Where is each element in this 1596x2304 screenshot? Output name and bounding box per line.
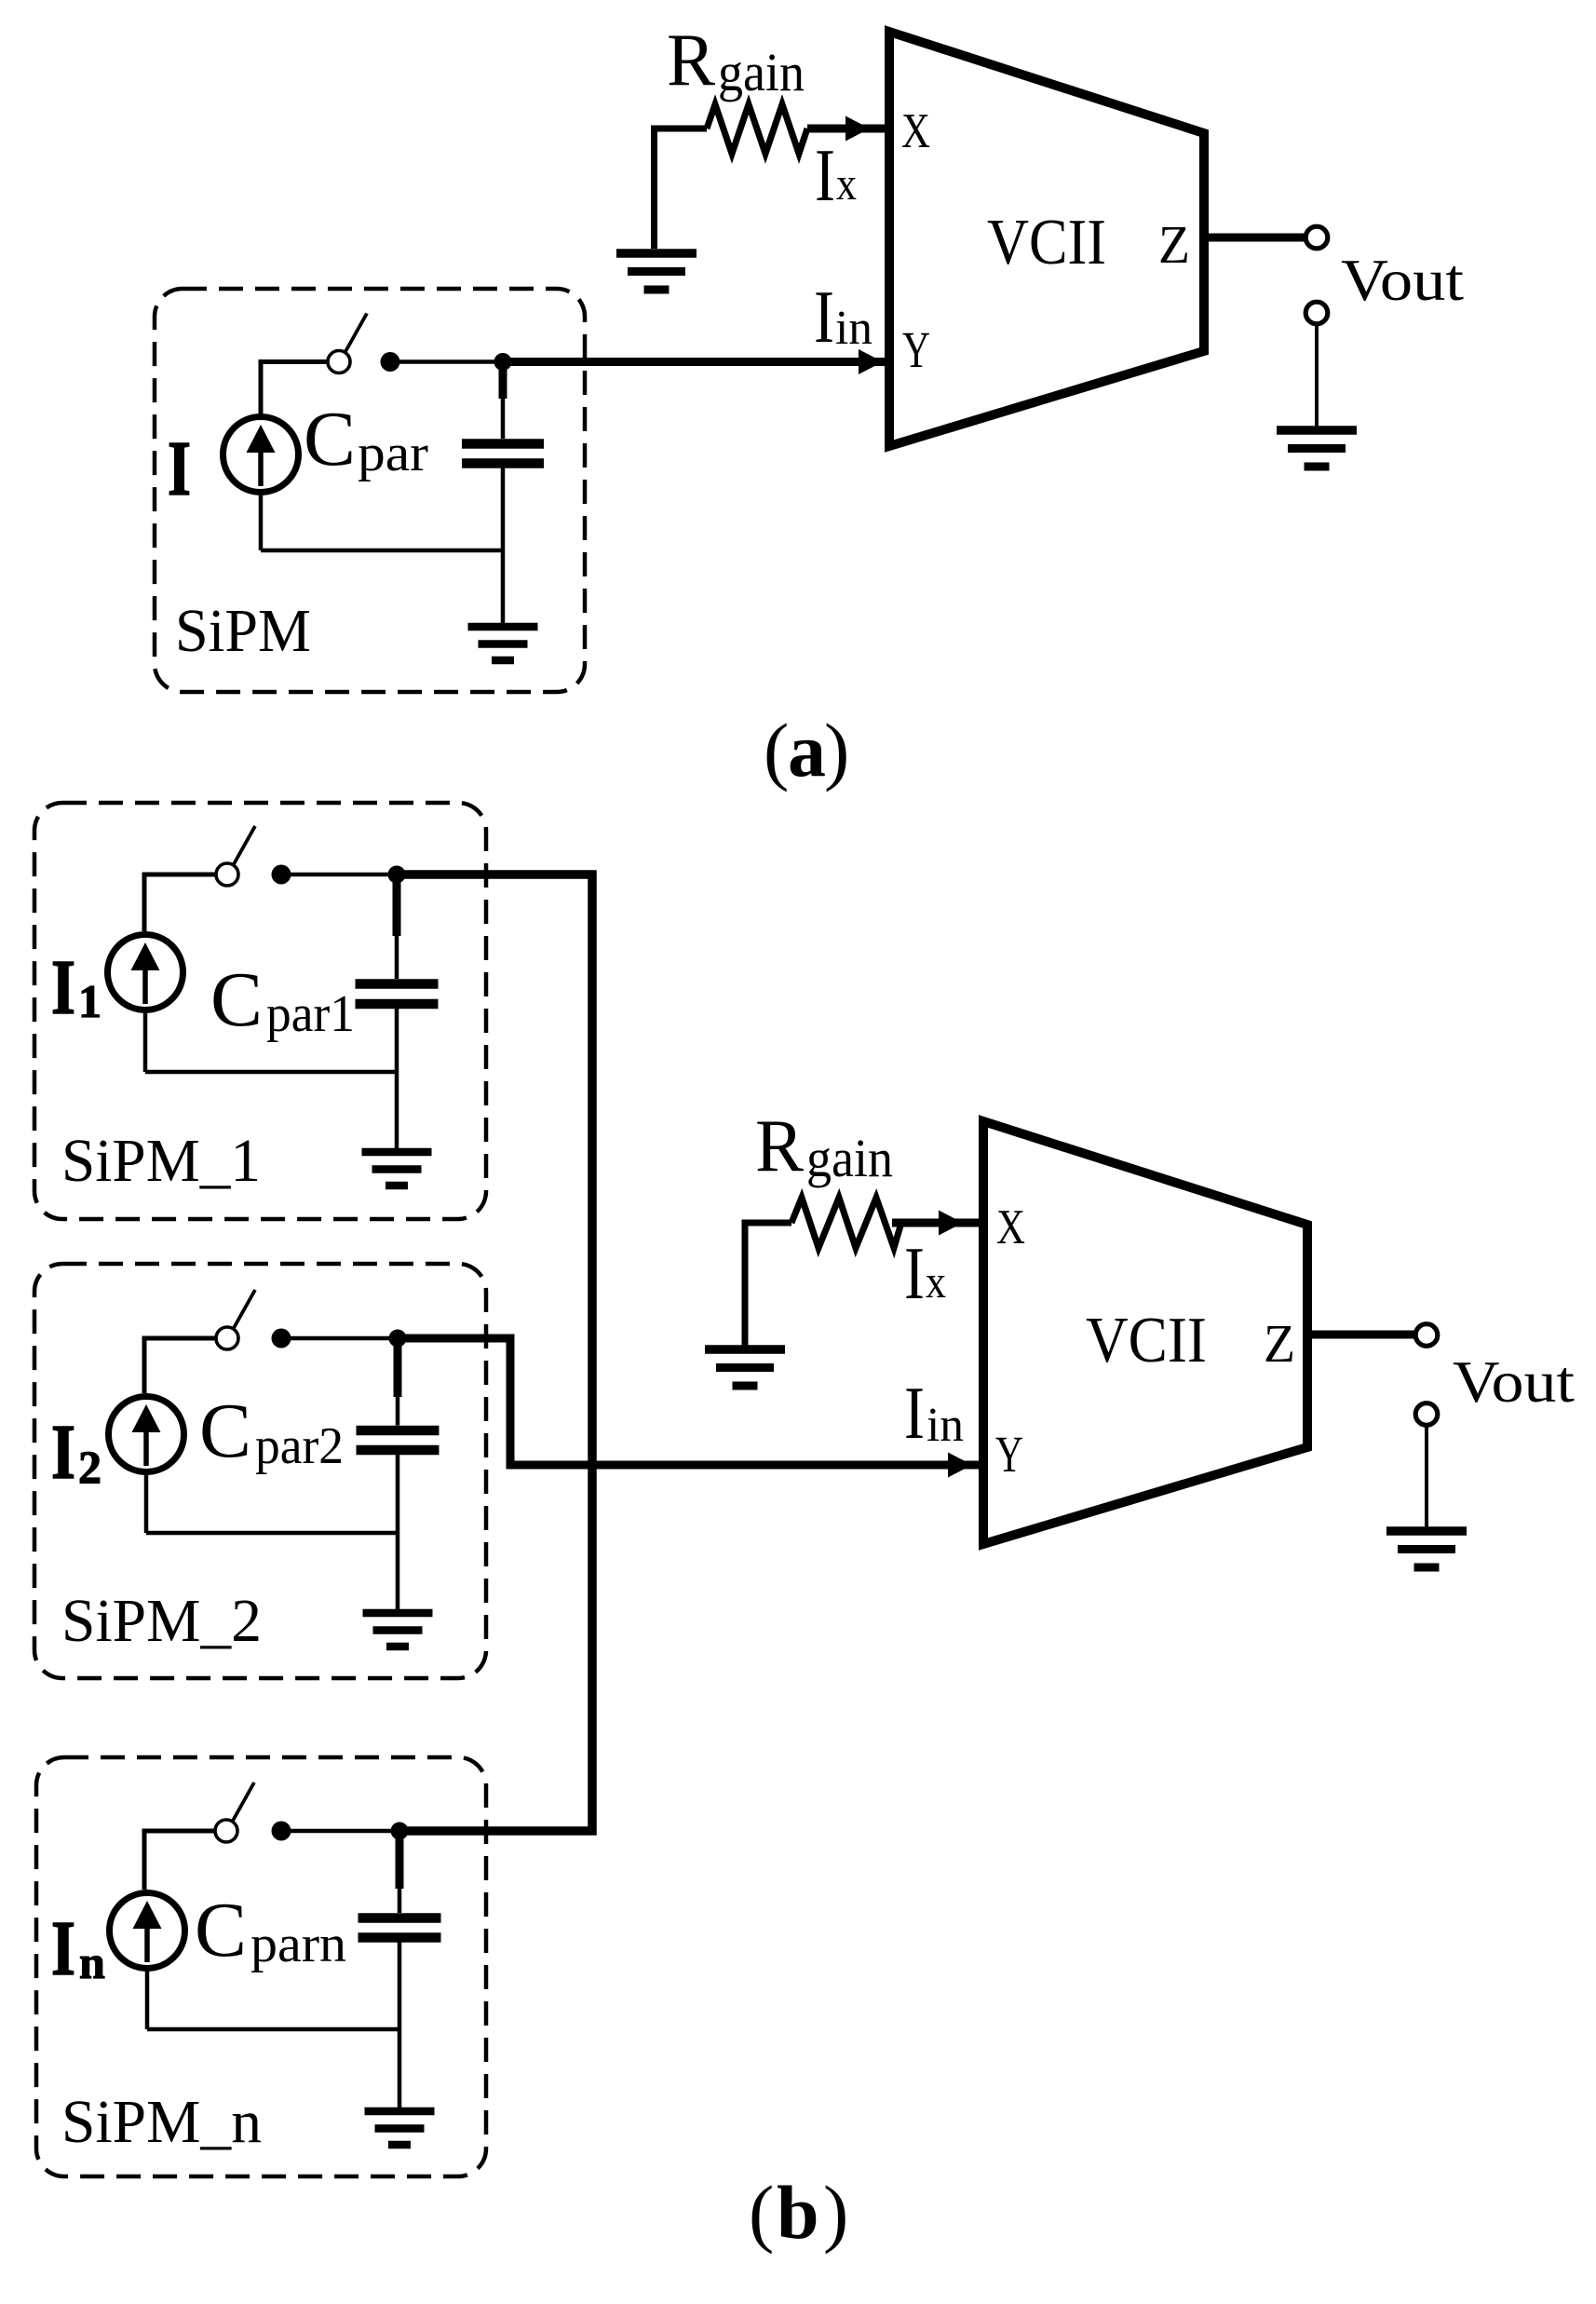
label I2 — [51, 1409, 101, 1496]
svg-text:R: R — [755, 1104, 804, 1187]
wire source-to-switch (b1) — [144, 874, 216, 931]
wire Iin to pin Y (a) with arrow — [503, 349, 886, 374]
resistor Rgain (a) — [707, 104, 807, 154]
svg-text:gain: gain — [806, 1128, 893, 1188]
wire source-to-switch (b3) — [144, 1831, 215, 1890]
capacitor Cpar1 — [356, 878, 439, 1004]
ground G3 (SiPM a) — [468, 627, 538, 660]
op-amp VCII U2 (b) — [983, 1121, 1307, 1544]
label (b) — [749, 2170, 848, 2255]
label Rgain (a) — [667, 18, 805, 102]
wire node-to-junction (b1) — [281, 873, 397, 877]
wire Iin to pin Y (b) with arrow — [507, 1453, 981, 1478]
capacitor Cparn — [358, 1835, 441, 1938]
current source I2 — [109, 1397, 184, 1472]
terminal Vout upper (a) — [1305, 226, 1328, 249]
label In — [51, 1905, 105, 1992]
label Rgain (b) — [755, 1104, 893, 1188]
terminal Vout lower (b) — [1415, 1403, 1438, 1426]
terminal Vout lower (a) — [1305, 302, 1328, 324]
ground G2 (Vout a) — [1277, 430, 1357, 467]
node dot (b3) — [272, 1822, 291, 1841]
node dot (b2) — [272, 1329, 291, 1349]
svg-text:a: a — [788, 708, 826, 793]
svg-text:C: C — [210, 956, 263, 1043]
wire source bottom rail (b3) — [147, 1943, 399, 2112]
ground G7 (SiPM_n) — [365, 2111, 435, 2145]
junction dot (b2) — [389, 1330, 407, 1348]
capacitor Cpar2 — [357, 1342, 440, 1450]
svg-text:par2: par2 — [255, 1417, 344, 1475]
svg-text:I: I — [904, 1373, 925, 1455]
switch S3 (b2) — [216, 1290, 255, 1349]
wire source-to-switch (b2) — [144, 1338, 216, 1393]
svg-text:in: in — [835, 302, 872, 355]
wire SiPM_2 output down to Iin rail — [398, 1338, 510, 1465]
ground G8 (Vout b) — [1386, 1531, 1467, 1567]
svg-text:VCII: VCII — [987, 207, 1106, 278]
svg-text:n: n — [79, 1936, 105, 1988]
svg-text:X: X — [996, 1200, 1025, 1254]
capacitor Cpar (a) — [462, 366, 544, 464]
node dot (switch contact a) — [381, 352, 400, 372]
wire Z output (b) — [1307, 1331, 1415, 1339]
svg-text:par1: par1 — [266, 985, 355, 1043]
svg-text:gain: gain — [718, 42, 805, 102]
svg-text:I: I — [51, 944, 75, 1031]
svg-text:SiPM_n: SiPM_n — [61, 2088, 262, 2156]
wire Z output (a) — [1204, 234, 1305, 242]
label I1 — [51, 944, 101, 1031]
switch S1 (a) — [328, 314, 367, 373]
label Iin (b) — [904, 1373, 964, 1455]
wire source-to-switch (a) — [261, 362, 328, 417]
current source I1 — [108, 935, 183, 1010]
wire SiPM_1 output to summing bus — [397, 874, 592, 1831]
terminal Vout upper (b) — [1415, 1324, 1438, 1347]
label Cpar2 — [199, 1388, 344, 1475]
current source I (a) — [223, 417, 299, 493]
wire source bottom rail (b2) — [146, 1455, 398, 1613]
svg-text:C: C — [199, 1388, 251, 1474]
wire Rgain to pin X (a) with current arrow — [807, 116, 886, 142]
svg-text:2: 2 — [78, 1441, 101, 1493]
SiPM module box (a) — [155, 289, 585, 692]
svg-text:Z: Z — [1264, 1313, 1295, 1374]
svg-text:): ) — [823, 2170, 848, 2255]
svg-text:(: ( — [764, 708, 789, 793]
ground G4 (Rgain b) — [705, 1349, 785, 1386]
svg-text:I: I — [51, 1905, 75, 1992]
svg-text:SiPM_2: SiPM_2 — [61, 1587, 262, 1655]
wire node-to-junction (b3) — [281, 1829, 399, 1834]
junction dot (b3) — [391, 1823, 409, 1840]
svg-text:C: C — [195, 1887, 247, 1973]
svg-text:I: I — [51, 1409, 75, 1496]
switch S2 (b1) — [216, 826, 255, 886]
wire Rgain-b left lead to ground — [745, 1223, 791, 1349]
svg-text:R: R — [667, 18, 715, 102]
resistor Rgain (b) — [791, 1198, 901, 1248]
svg-text:x: x — [926, 1255, 946, 1308]
label Ix (b) — [904, 1233, 946, 1315]
label Cpar1 — [210, 956, 355, 1043]
wire node-to-junction (b2) — [281, 1336, 398, 1341]
ground G1 (Rgain a) — [616, 253, 697, 290]
svg-text:(: ( — [749, 2170, 774, 2255]
svg-text:): ) — [824, 708, 849, 793]
SiPM_n module box — [36, 1757, 486, 2176]
svg-text:Vout: Vout — [1453, 1349, 1575, 1415]
svg-text:Y: Y — [902, 321, 930, 378]
wire source bottom rail (b1) — [145, 1009, 397, 1152]
label Ix (a) — [815, 135, 857, 217]
svg-text:par: par — [358, 425, 428, 482]
svg-text:Vout: Vout — [1341, 247, 1464, 313]
svg-text:I: I — [814, 277, 834, 359]
svg-text:SiPM_1: SiPM_1 — [61, 1127, 261, 1195]
svg-text:parn: parn — [250, 1916, 346, 1973]
svg-text:1: 1 — [78, 975, 101, 1027]
svg-text:b: b — [777, 2170, 819, 2255]
wire Vout to ground (b) — [1425, 1426, 1428, 1532]
svg-text:SiPM: SiPM — [175, 597, 311, 665]
wire Rgain to pin X (b) with current arrow — [892, 1211, 980, 1236]
SiPM_1 module box — [34, 803, 486, 1219]
SiPM_2 module box — [34, 1264, 486, 1678]
svg-text:C: C — [304, 396, 356, 482]
svg-text:I: I — [168, 426, 191, 512]
svg-text:Y: Y — [995, 1426, 1023, 1483]
junction dot (b1) — [388, 866, 406, 884]
svg-text:I: I — [815, 135, 835, 217]
svg-text:VCII: VCII — [1086, 1305, 1207, 1376]
op-amp VCII U1 (a) — [889, 32, 1204, 446]
svg-text:X: X — [901, 104, 930, 158]
label Iin (a) — [814, 277, 872, 359]
label Cparn — [195, 1887, 346, 1973]
svg-text:x: x — [836, 157, 857, 210]
label (a) — [764, 708, 849, 793]
wire source bottom rail (a) — [261, 468, 503, 627]
ground G5 (SiPM_1) — [362, 1152, 432, 1186]
label Cpar (a) — [304, 396, 428, 482]
switch S4 (b3) — [215, 1782, 254, 1842]
svg-text:in: in — [926, 1399, 964, 1452]
svg-text:I: I — [904, 1233, 925, 1315]
svg-text:Z: Z — [1158, 214, 1190, 275]
current source In — [110, 1893, 185, 1969]
wire node-to-junction (a) — [390, 359, 503, 364]
ground G6 (SiPM_2) — [363, 1613, 433, 1647]
wire Rgain-a left lead to ground — [655, 129, 708, 249]
node dot (b1) — [272, 865, 291, 885]
wire Vout to ground (a) — [1315, 324, 1319, 430]
junction dot (a) — [494, 353, 512, 371]
